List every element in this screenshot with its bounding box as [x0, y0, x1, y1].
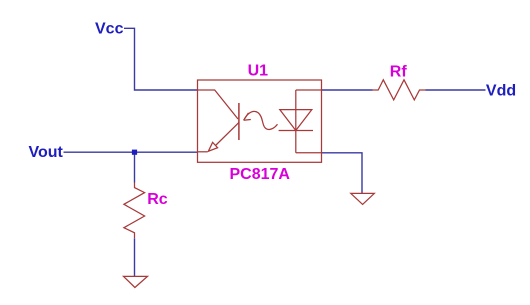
svg-text:Vdd: Vdd	[486, 83, 516, 100]
svg-text:Rf: Rf	[390, 63, 408, 80]
svg-text:U1: U1	[248, 62, 269, 79]
svg-text:Vcc: Vcc	[95, 21, 124, 38]
svg-text:Vout: Vout	[29, 144, 64, 161]
svg-text:Rc: Rc	[147, 191, 168, 208]
svg-text:PC817A: PC817A	[230, 166, 291, 183]
